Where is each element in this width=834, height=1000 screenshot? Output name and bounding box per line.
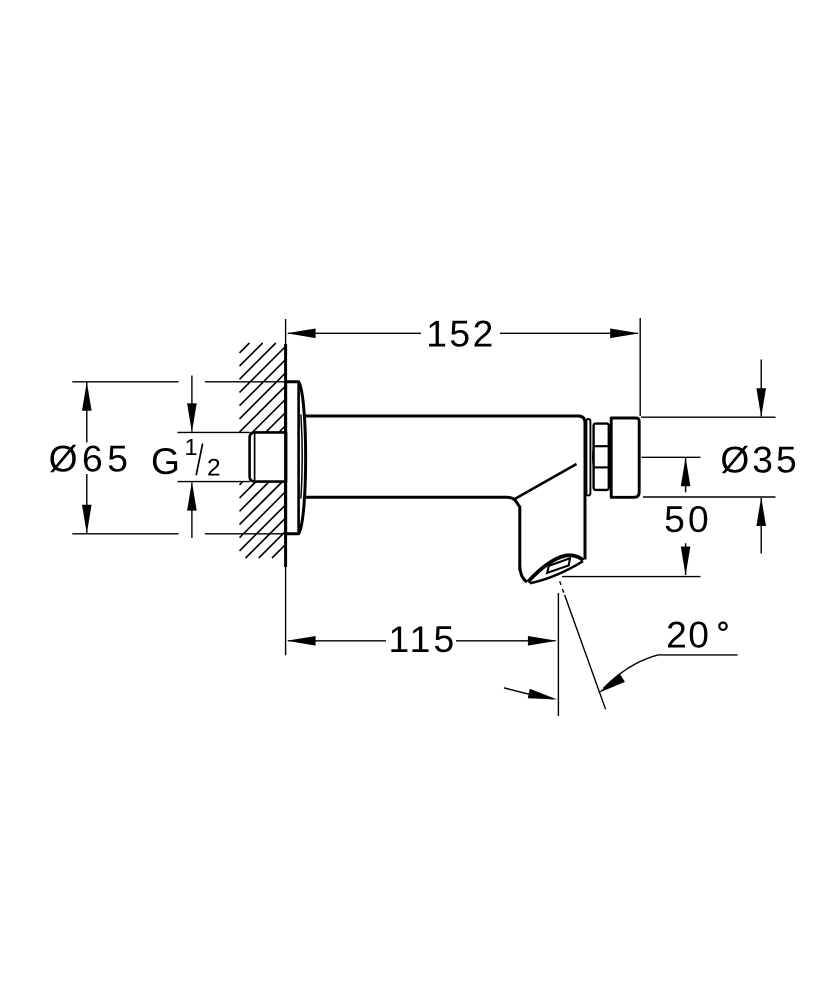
svg-text:Ø65: Ø65 xyxy=(49,437,133,479)
svg-text:1: 1 xyxy=(184,434,197,460)
svg-text:2: 2 xyxy=(207,454,221,481)
svg-text:115: 115 xyxy=(389,618,458,660)
svg-text:20: 20 xyxy=(666,614,710,656)
svg-text:Ø35: Ø35 xyxy=(720,438,799,480)
svg-text:G: G xyxy=(151,440,180,482)
svg-text:152: 152 xyxy=(426,313,496,355)
svg-text:50: 50 xyxy=(664,498,712,540)
